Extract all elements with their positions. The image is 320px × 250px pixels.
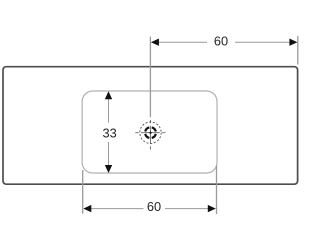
bottom dimension line right segment xyxy=(165,208,208,210)
tap hole thick arc NE xyxy=(152,127,156,131)
bottom dimension right arrow xyxy=(208,205,216,212)
tap hole crosshair vertical short dash top xyxy=(149,120,151,123)
tap hole thick arc NW xyxy=(145,127,149,131)
tap hole thick arc SW xyxy=(145,134,149,138)
top dimension extension line right xyxy=(297,36,299,65)
top dimension line right segment xyxy=(235,41,290,43)
vertical centerline of tap hole xyxy=(149,37,151,118)
basin depth dimension line lower segment xyxy=(108,142,110,165)
svg-text:60: 60 xyxy=(147,199,161,214)
basin bowl outline xyxy=(82,91,217,173)
top dimension right arrow xyxy=(289,39,297,46)
tap hole dashed circle xyxy=(140,122,161,143)
top dimension line left segment xyxy=(158,41,207,43)
bottom dimension line left segment xyxy=(91,208,144,210)
bottom dimension left arrow xyxy=(83,205,91,212)
tap hole crosshair horizontal main xyxy=(141,132,160,134)
svg-text:33: 33 xyxy=(102,125,116,140)
tap hole crosshair horizontal short dash left xyxy=(135,132,138,134)
bottom dimension extension line left xyxy=(82,170,84,214)
tap hole center dot xyxy=(149,131,152,134)
washbasin countertop outline xyxy=(3,67,298,185)
tap hole crosshair vertical main xyxy=(149,126,151,144)
tap hole thick arc SE xyxy=(152,134,156,138)
basin depth up arrow xyxy=(105,91,112,99)
tap hole crosshair horizontal short dash right xyxy=(162,132,165,134)
top dimension left arrow xyxy=(151,39,159,46)
svg-text:60: 60 xyxy=(214,34,228,49)
bottom dimension extension line right xyxy=(216,166,218,215)
tap hole crosshair vertical short dash bottom xyxy=(149,146,151,149)
basin depth down arrow xyxy=(105,165,112,173)
basin depth dimension line upper segment xyxy=(108,99,110,123)
